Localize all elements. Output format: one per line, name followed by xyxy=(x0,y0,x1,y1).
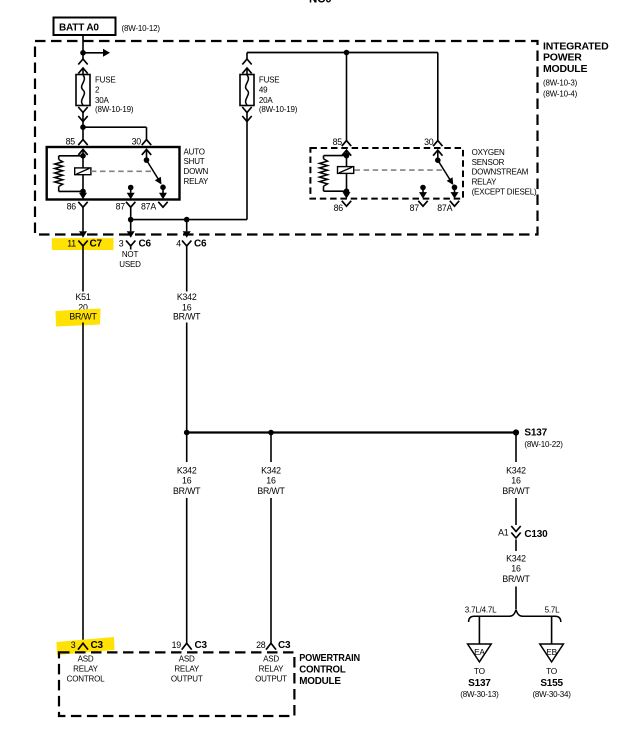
svg-text:BR/WT: BR/WT xyxy=(257,486,285,496)
svg-text:(8W-30-34): (8W-30-34) xyxy=(532,690,571,699)
svg-text:FUSE: FUSE xyxy=(95,76,116,85)
svg-text:CONTROL: CONTROL xyxy=(299,665,345,676)
svg-text:ASD: ASD xyxy=(78,654,94,663)
svg-text:BR/WT: BR/WT xyxy=(173,486,201,496)
svg-text:EA: EA xyxy=(474,647,485,657)
svg-text:(8W-10-22): (8W-10-22) xyxy=(524,440,563,449)
svg-text:85: 85 xyxy=(66,137,76,147)
svg-text:49: 49 xyxy=(259,86,268,95)
svg-text:OUTPUT: OUTPUT xyxy=(255,675,287,684)
svg-text:RELAY: RELAY xyxy=(184,177,210,186)
svg-text:C6: C6 xyxy=(139,239,152,250)
svg-text:16: 16 xyxy=(266,476,276,486)
svg-text:BATT A0: BATT A0 xyxy=(59,23,99,34)
svg-text:NOT: NOT xyxy=(122,250,139,259)
svg-text:C3: C3 xyxy=(278,640,291,651)
svg-text:3: 3 xyxy=(71,640,76,650)
svg-text:87: 87 xyxy=(410,203,420,213)
svg-text:S137: S137 xyxy=(524,428,547,439)
svg-text:DOWNSTREAM: DOWNSTREAM xyxy=(472,168,529,177)
svg-text:K342: K342 xyxy=(506,553,526,563)
svg-text:C130: C130 xyxy=(524,529,548,540)
svg-text:C7: C7 xyxy=(90,239,103,250)
svg-text:87A: 87A xyxy=(437,203,452,213)
svg-text:(8W-10-19): (8W-10-19) xyxy=(95,105,134,114)
svg-text:30: 30 xyxy=(132,137,142,147)
svg-text:AUTO: AUTO xyxy=(184,147,205,156)
svg-text:S137: S137 xyxy=(468,678,491,689)
svg-text:16: 16 xyxy=(511,564,521,574)
svg-text:85: 85 xyxy=(333,137,343,147)
svg-text:87A: 87A xyxy=(141,201,156,211)
svg-text:OUTPUT: OUTPUT xyxy=(171,675,203,684)
svg-text:BR/WT: BR/WT xyxy=(502,574,530,584)
svg-text:RELAY: RELAY xyxy=(259,665,285,674)
svg-text:K342: K342 xyxy=(506,465,526,475)
svg-text:C3: C3 xyxy=(91,640,104,651)
svg-text:(EXCEPT DIESEL): (EXCEPT DIESEL) xyxy=(472,188,537,197)
svg-text:BR/WT: BR/WT xyxy=(69,312,97,322)
svg-text:20A: 20A xyxy=(259,96,273,105)
svg-text:SHUT: SHUT xyxy=(184,157,205,166)
svg-text:30A: 30A xyxy=(95,96,109,105)
svg-text:USED: USED xyxy=(119,260,141,269)
svg-text:CONTROL: CONTROL xyxy=(67,675,105,684)
svg-text:(8W-10-4): (8W-10-4) xyxy=(543,89,578,98)
svg-text:87: 87 xyxy=(116,201,126,211)
svg-text:NC0: NC0 xyxy=(309,0,331,6)
svg-text:ASD: ASD xyxy=(263,654,279,663)
svg-text:(8W-10-12): (8W-10-12) xyxy=(122,24,161,33)
svg-text:SENSOR: SENSOR xyxy=(472,158,505,167)
svg-text:K342: K342 xyxy=(177,292,197,302)
svg-text:3: 3 xyxy=(119,239,124,249)
svg-text:(8W-10-19): (8W-10-19) xyxy=(259,105,298,114)
svg-text:MODULE: MODULE xyxy=(299,676,341,687)
svg-text:BR/WT: BR/WT xyxy=(173,312,201,322)
svg-text:S155: S155 xyxy=(540,678,563,689)
svg-text:30: 30 xyxy=(424,137,434,147)
svg-text:POWER: POWER xyxy=(543,52,582,64)
svg-text:RELAY: RELAY xyxy=(174,665,200,674)
svg-text:ASD: ASD xyxy=(179,654,195,663)
svg-text:DOWN: DOWN xyxy=(184,167,209,176)
svg-text:4: 4 xyxy=(176,239,181,249)
svg-text:MODULE: MODULE xyxy=(543,63,587,75)
svg-text:FUSE: FUSE xyxy=(259,76,280,85)
svg-text:K342: K342 xyxy=(177,465,197,475)
svg-text:16: 16 xyxy=(511,476,521,486)
svg-text:OXYGEN: OXYGEN xyxy=(472,148,505,157)
svg-text:16: 16 xyxy=(182,476,192,486)
svg-text:11: 11 xyxy=(67,239,76,249)
svg-text:RELAY: RELAY xyxy=(472,178,498,187)
svg-text:(8W-10-3): (8W-10-3) xyxy=(543,79,578,88)
svg-text:5.7L: 5.7L xyxy=(545,606,561,615)
svg-text:C6: C6 xyxy=(194,239,207,250)
svg-text:POWERTRAIN: POWERTRAIN xyxy=(299,653,360,664)
svg-text:86: 86 xyxy=(334,203,344,213)
svg-text:K51: K51 xyxy=(75,292,90,302)
svg-text:28: 28 xyxy=(256,640,266,650)
svg-text:INTEGRATED: INTEGRATED xyxy=(543,40,609,52)
svg-text:BR/WT: BR/WT xyxy=(502,486,530,496)
svg-text:RELAY: RELAY xyxy=(73,665,99,674)
svg-text:A1: A1 xyxy=(498,528,509,538)
svg-text:(8W-30-13): (8W-30-13) xyxy=(460,690,499,699)
svg-text:3.7L/4.7L: 3.7L/4.7L xyxy=(465,606,497,615)
svg-text:K342: K342 xyxy=(261,465,281,475)
svg-text:EB: EB xyxy=(546,647,557,657)
svg-text:TO: TO xyxy=(546,666,558,676)
svg-text:19: 19 xyxy=(172,640,182,650)
svg-text:C3: C3 xyxy=(195,640,208,651)
svg-text:86: 86 xyxy=(67,201,77,211)
svg-text:TO: TO xyxy=(474,666,486,676)
